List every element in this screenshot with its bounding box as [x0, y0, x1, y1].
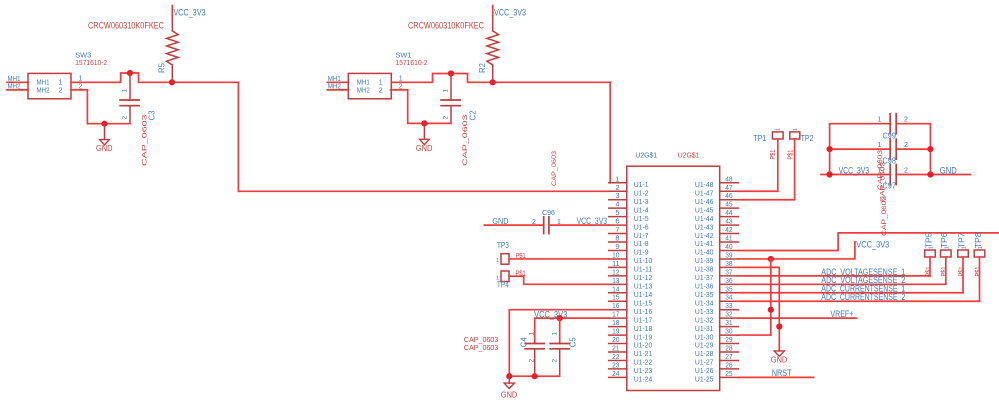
resistor R5 [167, 16, 179, 83]
svg-text:P$1: P$1 [925, 266, 932, 276]
capacitor C2 [441, 74, 460, 124]
svg-text:1: 1 [121, 89, 128, 93]
TP7 tiny 1 [962, 246, 968, 249]
net label VCC_3V3 (R5) [174, 8, 206, 19]
svg-text:NRST: NRST [772, 368, 792, 379]
svg-text:C3: C3 [148, 110, 157, 121]
wire TP7 [962, 257, 964, 293]
U2G$1 pin stubs [609, 183, 739, 378]
svg-text:CAP_0603: CAP_0603 [879, 161, 886, 202]
TP7 name [957, 232, 966, 248]
svg-text:25: 25 [725, 369, 732, 378]
junction rail C97 right [927, 171, 933, 177]
svg-text:1: 1 [962, 246, 968, 249]
svg-text:R2: R2 [478, 62, 487, 73]
TP1 P$1 label [770, 150, 777, 160]
value 1571610-2 (SW3) [75, 58, 107, 67]
svg-text:1: 1 [442, 89, 449, 93]
svg-text:P$1: P$1 [787, 150, 794, 160]
C4 name [519, 337, 528, 348]
junction C3 top [127, 70, 133, 76]
wire U1 pin16 to gnd rail [509, 310, 608, 377]
svg-text:GND: GND [416, 144, 433, 153]
svg-text:TP7: TP7 [957, 232, 966, 248]
net label MH1 (SW3) [8, 76, 21, 83]
wire vertical pin39 to pin30 [770, 259, 772, 335]
TP4 pin1 tiny label [496, 276, 499, 282]
capacitor C97 [890, 165, 896, 185]
svg-text:GND: GND [940, 165, 957, 175]
wire MH1 to SW1 [327, 81, 348, 83]
svg-text:2: 2 [532, 219, 536, 226]
testpoint TP6 [941, 250, 952, 257]
net label VCC_3V3 (cap bank) [839, 165, 870, 175]
TP5 P$1 label [925, 266, 932, 276]
svg-text:C4: C4 [519, 337, 528, 348]
wire pin38 to GND [739, 267, 780, 350]
wire R5 junction to corner [172, 82, 238, 191]
svg-text:GND: GND [96, 144, 113, 153]
resistor R2 [487, 16, 499, 83]
TP7 P$1 label [958, 266, 965, 276]
C97 pin 1 label [878, 168, 882, 175]
wire net ADC_CURRENTSENSE_1 [739, 292, 964, 294]
svg-text:2: 2 [904, 142, 908, 149]
svg-text:U2G$1: U2G$1 [678, 150, 700, 159]
net label ADC_VOLTAGESENSE_1 [821, 267, 905, 278]
value 1571610-2 (SW1) [396, 58, 428, 67]
TP3 name [497, 241, 509, 250]
wire C3 bottom to SW3 pin2 [71, 90, 130, 124]
wire C97 right [896, 174, 970, 176]
TP2 tiny 1 [793, 128, 799, 131]
svg-text:1: 1 [978, 246, 984, 249]
svg-text:U1-24: U1-24 [634, 375, 653, 384]
TP1 name [753, 134, 766, 143]
svg-text:MH1: MH1 [357, 80, 370, 87]
svg-text:1: 1 [58, 80, 62, 87]
svg-text:P$1: P$1 [770, 150, 777, 160]
U2G$1 pin numbers [612, 174, 733, 378]
wire C5 top [559, 318, 561, 343]
junction C2 top [448, 70, 454, 76]
net label VCC_3V3 (pin39) [856, 240, 889, 251]
wire net ADC_VOLTAGESENSE_1 [739, 275, 930, 277]
switch SW1 [348, 73, 391, 98]
pin 1 label (SW1) [399, 76, 403, 83]
C4 value CAP_0603 [464, 335, 499, 344]
wire SW1 pin1 jog over C2 [391, 74, 492, 83]
TP4 P$1 label [516, 271, 526, 278]
C97 pin 2 label [904, 168, 908, 175]
svg-text:TP5: TP5 [924, 232, 933, 248]
label SW3 [75, 51, 91, 60]
svg-text:2: 2 [551, 359, 558, 363]
svg-text:VCC_3V3: VCC_3V3 [577, 216, 608, 226]
label SW1 [396, 51, 412, 60]
svg-text:1571610-2: 1571610-2 [75, 58, 107, 67]
wire C2 bottom to SW1 pin2 [391, 90, 452, 124]
junction C5 tap [557, 315, 563, 321]
svg-text:TP2: TP2 [801, 134, 814, 143]
capacitor C99 [890, 114, 896, 134]
C96 pin 1 label [557, 219, 561, 226]
TP1 tiny 1 [776, 128, 782, 131]
testpoint TP4 [501, 271, 509, 282]
svg-text:CAP_0603: CAP_0603 [142, 114, 149, 166]
pin 2 label (SW1) [399, 84, 403, 91]
svg-text:1: 1 [551, 332, 558, 336]
wire TP8 [979, 257, 981, 301]
svg-text:24: 24 [612, 369, 619, 378]
svg-text:MH2: MH2 [37, 87, 50, 94]
wire to U1 pin 2 [238, 190, 608, 192]
wire left rail cap bank [829, 124, 831, 175]
wire TP2 to U1 pin 46 [739, 139, 795, 200]
svg-text:P$1: P$1 [941, 266, 948, 276]
ground GND (C4 C5) [501, 376, 518, 399]
TP8 P$1 label [975, 266, 982, 276]
wire U1 pin17 VCC [535, 318, 609, 343]
net label NRST [772, 368, 792, 379]
testpoint TP8 [974, 250, 985, 257]
svg-text:CAP_0603: CAP_0603 [881, 195, 888, 236]
C4 pin1 label [528, 332, 535, 336]
C97 value CAP_0603 [881, 195, 888, 236]
C3 name [148, 110, 157, 121]
C3 pin 1 label [121, 89, 128, 93]
gnd rail below C4 C5 [509, 375, 559, 377]
C99 pin 2 label [904, 117, 908, 124]
svg-text:VCC_3V3: VCC_3V3 [174, 8, 206, 19]
net label VCC_3V3 (pin17) [534, 310, 567, 321]
svg-text:1: 1 [929, 246, 935, 249]
junction pin39 [768, 256, 774, 262]
svg-text:MH2: MH2 [357, 87, 370, 94]
vcc stub R5 [171, 6, 173, 16]
testpoint TP7 [958, 250, 969, 257]
TP5 name [924, 232, 933, 248]
TP6 P$1 label [941, 266, 948, 276]
junction pin33 [768, 307, 774, 313]
svg-text:1: 1 [793, 128, 799, 131]
svg-text:2: 2 [58, 87, 62, 94]
svg-text:ADC_CURRENTSENSE_2: ADC_CURRENTSENSE_2 [821, 292, 905, 303]
wire C98 left [830, 148, 891, 150]
C3 value CAP_0603 [142, 114, 149, 166]
svg-text:1: 1 [944, 246, 950, 249]
net label MH2 (SW1) [328, 83, 341, 90]
svg-text:TP4: TP4 [497, 281, 509, 290]
svg-text:CAP_0603: CAP_0603 [464, 343, 499, 352]
wire MH2 to SW1 [327, 89, 348, 91]
svg-text:C2: C2 [468, 110, 477, 121]
junction R2 bottom [490, 79, 496, 85]
ground GND (SW3) [96, 124, 113, 153]
svg-text:U1-25: U1-25 [695, 375, 714, 384]
U2G$1 pin names [634, 180, 714, 384]
svg-text:MH1: MH1 [37, 80, 50, 87]
ground GND (SW1) [416, 123, 433, 152]
wire C97 left [821, 174, 890, 176]
wire C99 left [830, 123, 891, 125]
wire MH2 to SW3 [7, 89, 28, 91]
testpoint TP5 [925, 250, 936, 257]
TP5 tiny 1 [929, 246, 935, 249]
TP8 tiny 1 [978, 246, 984, 249]
svg-text:CAP_0603: CAP_0603 [462, 114, 469, 166]
svg-text:CRCW060310K0FKEC: CRCW060310K0FKEC [88, 21, 164, 31]
svg-text:R5: R5 [158, 62, 167, 73]
wire TP5 [929, 257, 931, 276]
net label VREF+ [830, 309, 853, 320]
svg-text:TP8: TP8 [974, 232, 983, 248]
C99 name [883, 131, 897, 140]
wire net VREF+ [739, 317, 857, 319]
junction rail C98 left [827, 146, 833, 152]
wire C96 to U1 pin 6 [549, 224, 609, 226]
U2G$1 value [678, 150, 700, 159]
svg-text:1: 1 [496, 276, 499, 282]
op-amp U2G$1 box [627, 166, 720, 390]
capacitor C5 [550, 344, 569, 377]
junction GND rail SW1 [421, 120, 427, 126]
switch SW3 [28, 73, 71, 98]
svg-text:VREF+: VREF+ [830, 309, 853, 320]
svg-text:C5: C5 [568, 337, 577, 348]
vcc stub R2 [492, 6, 494, 16]
svg-text:2: 2 [442, 116, 449, 120]
svg-text:GND: GND [771, 356, 788, 365]
junction C4 bottom [532, 373, 538, 379]
net label VCC_3V3 (R2) [494, 8, 526, 19]
svg-text:1: 1 [878, 117, 882, 124]
net label ADC_VOLTAGESENSE_2 [821, 275, 905, 286]
U2G$1 name [635, 150, 657, 159]
R2 value CRCW060310K0FKEC [408, 21, 484, 31]
svg-text:1: 1 [496, 258, 499, 264]
C98 name [883, 157, 897, 166]
TP2 name [801, 134, 814, 143]
svg-text:TP3: TP3 [497, 241, 509, 250]
C2 value CAP_0603 [462, 114, 469, 166]
C98 pin 2 label [904, 142, 908, 149]
wire TP1 to U1 pin 47 [739, 139, 778, 191]
wire GND to C96 [484, 224, 543, 226]
capacitor C96 [544, 217, 549, 234]
C5 pin2 label [551, 359, 558, 363]
C96 value CAP_0603 [551, 151, 558, 186]
svg-text:2: 2 [904, 168, 908, 175]
R2 name [478, 62, 487, 73]
svg-text:C96: C96 [542, 208, 555, 217]
wire MH1 to SW3 [7, 81, 28, 83]
testpoint TP2 [790, 132, 800, 139]
svg-text:TP1: TP1 [753, 134, 766, 143]
TP3 pin1 tiny label [496, 258, 499, 264]
R5 value CRCW060310K0FKEC [88, 21, 164, 31]
testpoint TP3 [501, 254, 509, 265]
wire SW3 pin1 jog over C3 [71, 73, 172, 82]
net label ADC_CURRENTSENSE_1 [821, 284, 905, 295]
svg-text:VCC_3V3: VCC_3V3 [839, 165, 870, 175]
TP2 P$1 label [787, 150, 794, 160]
svg-text:U2G$1: U2G$1 [635, 150, 657, 159]
svg-text:1: 1 [878, 142, 882, 149]
C98 pin 1 label [878, 142, 882, 149]
C96 pin 2 label [532, 219, 536, 226]
junction rail C97 left [827, 171, 833, 177]
TP3 P$1 label [516, 253, 526, 260]
capacitor C3 [120, 73, 139, 124]
wire pin30 stub [739, 334, 771, 336]
C97 name [883, 182, 897, 191]
wire U1 pin40 VCC_3V3 [739, 233, 999, 251]
C5 value CAP_0603 [464, 343, 499, 352]
wire right rail cap bank [929, 124, 931, 175]
svg-text:VCC_3V3: VCC_3V3 [494, 8, 526, 19]
svg-text:P$1: P$1 [975, 266, 982, 276]
C5 pin1 label [551, 332, 558, 336]
wire net NRST [739, 376, 814, 378]
pin 1 label (SW3) [79, 76, 83, 83]
TP8 name [974, 232, 983, 248]
C98 value CAP_0603 [879, 161, 886, 202]
svg-text:1: 1 [528, 332, 535, 336]
wire TP3 to U1 pin 10 [509, 258, 609, 260]
C99 pin 1 label [878, 117, 882, 124]
svg-text:2: 2 [528, 359, 535, 363]
TP6 name [940, 232, 949, 248]
junction R5 bottom [169, 79, 175, 85]
svg-text:1571610-2: 1571610-2 [396, 58, 428, 67]
capacitor C98 [890, 139, 896, 159]
capacitor C4 [525, 344, 544, 377]
wire TP6 [945, 257, 947, 284]
net label MH1 (SW1) [328, 76, 341, 83]
net label ADC_CURRENTSENSE_2 [821, 292, 905, 303]
wire net ADC_VOLTAGESENSE_2 [739, 283, 946, 285]
wire C98 right [896, 148, 930, 150]
junction rail C98 right [927, 146, 933, 152]
C99 value CAP_0603 [877, 149, 884, 190]
net label GND (cap bank) [940, 165, 957, 175]
svg-text:GND: GND [501, 390, 518, 399]
svg-text:2: 2 [379, 87, 383, 94]
svg-text:TP6: TP6 [940, 232, 949, 248]
svg-text:CRCW060310K0FKEC: CRCW060310K0FKEC [408, 21, 484, 31]
net label VCC_3V3 (pin6) [577, 216, 608, 226]
net label MH2 (SW3) [8, 83, 21, 90]
wire R2 junction to U1 pin 1 [493, 82, 611, 183]
net label GND (C96) [492, 217, 508, 226]
svg-text:1: 1 [379, 80, 383, 87]
ground GND (pin38) [771, 351, 788, 365]
TP4 name [497, 281, 509, 290]
wire U1 pin39 VCC_3V3 [739, 242, 855, 259]
testpoint TP1 [772, 132, 783, 139]
junction gnd rail left [506, 373, 512, 379]
R5 name [158, 62, 167, 73]
wire net ADC_CURRENTSENSE_2 [739, 300, 980, 302]
C2 name [468, 110, 477, 121]
wire C99 right [896, 123, 930, 125]
svg-text:2: 2 [121, 116, 128, 120]
C5 name [568, 337, 577, 348]
svg-text:2: 2 [904, 117, 908, 124]
C96 name [542, 208, 555, 217]
svg-text:VCC_3V3: VCC_3V3 [856, 240, 889, 251]
svg-text:CAP_0603: CAP_0603 [551, 151, 558, 186]
svg-text:1: 1 [776, 128, 782, 131]
wire TP4 to U1 pin 13 [509, 276, 609, 284]
C4 pin2 label [528, 359, 535, 363]
junction GND rail SW3 [101, 121, 107, 127]
C2 pin 2 label [442, 116, 449, 120]
C3 pin 2 label [121, 116, 128, 120]
svg-text:P$1: P$1 [958, 266, 965, 276]
TP6 tiny 1 [944, 246, 950, 249]
junction pin31 [776, 324, 782, 330]
C2 pin 1 label [442, 89, 449, 93]
pin 2 label (SW3) [79, 84, 83, 91]
